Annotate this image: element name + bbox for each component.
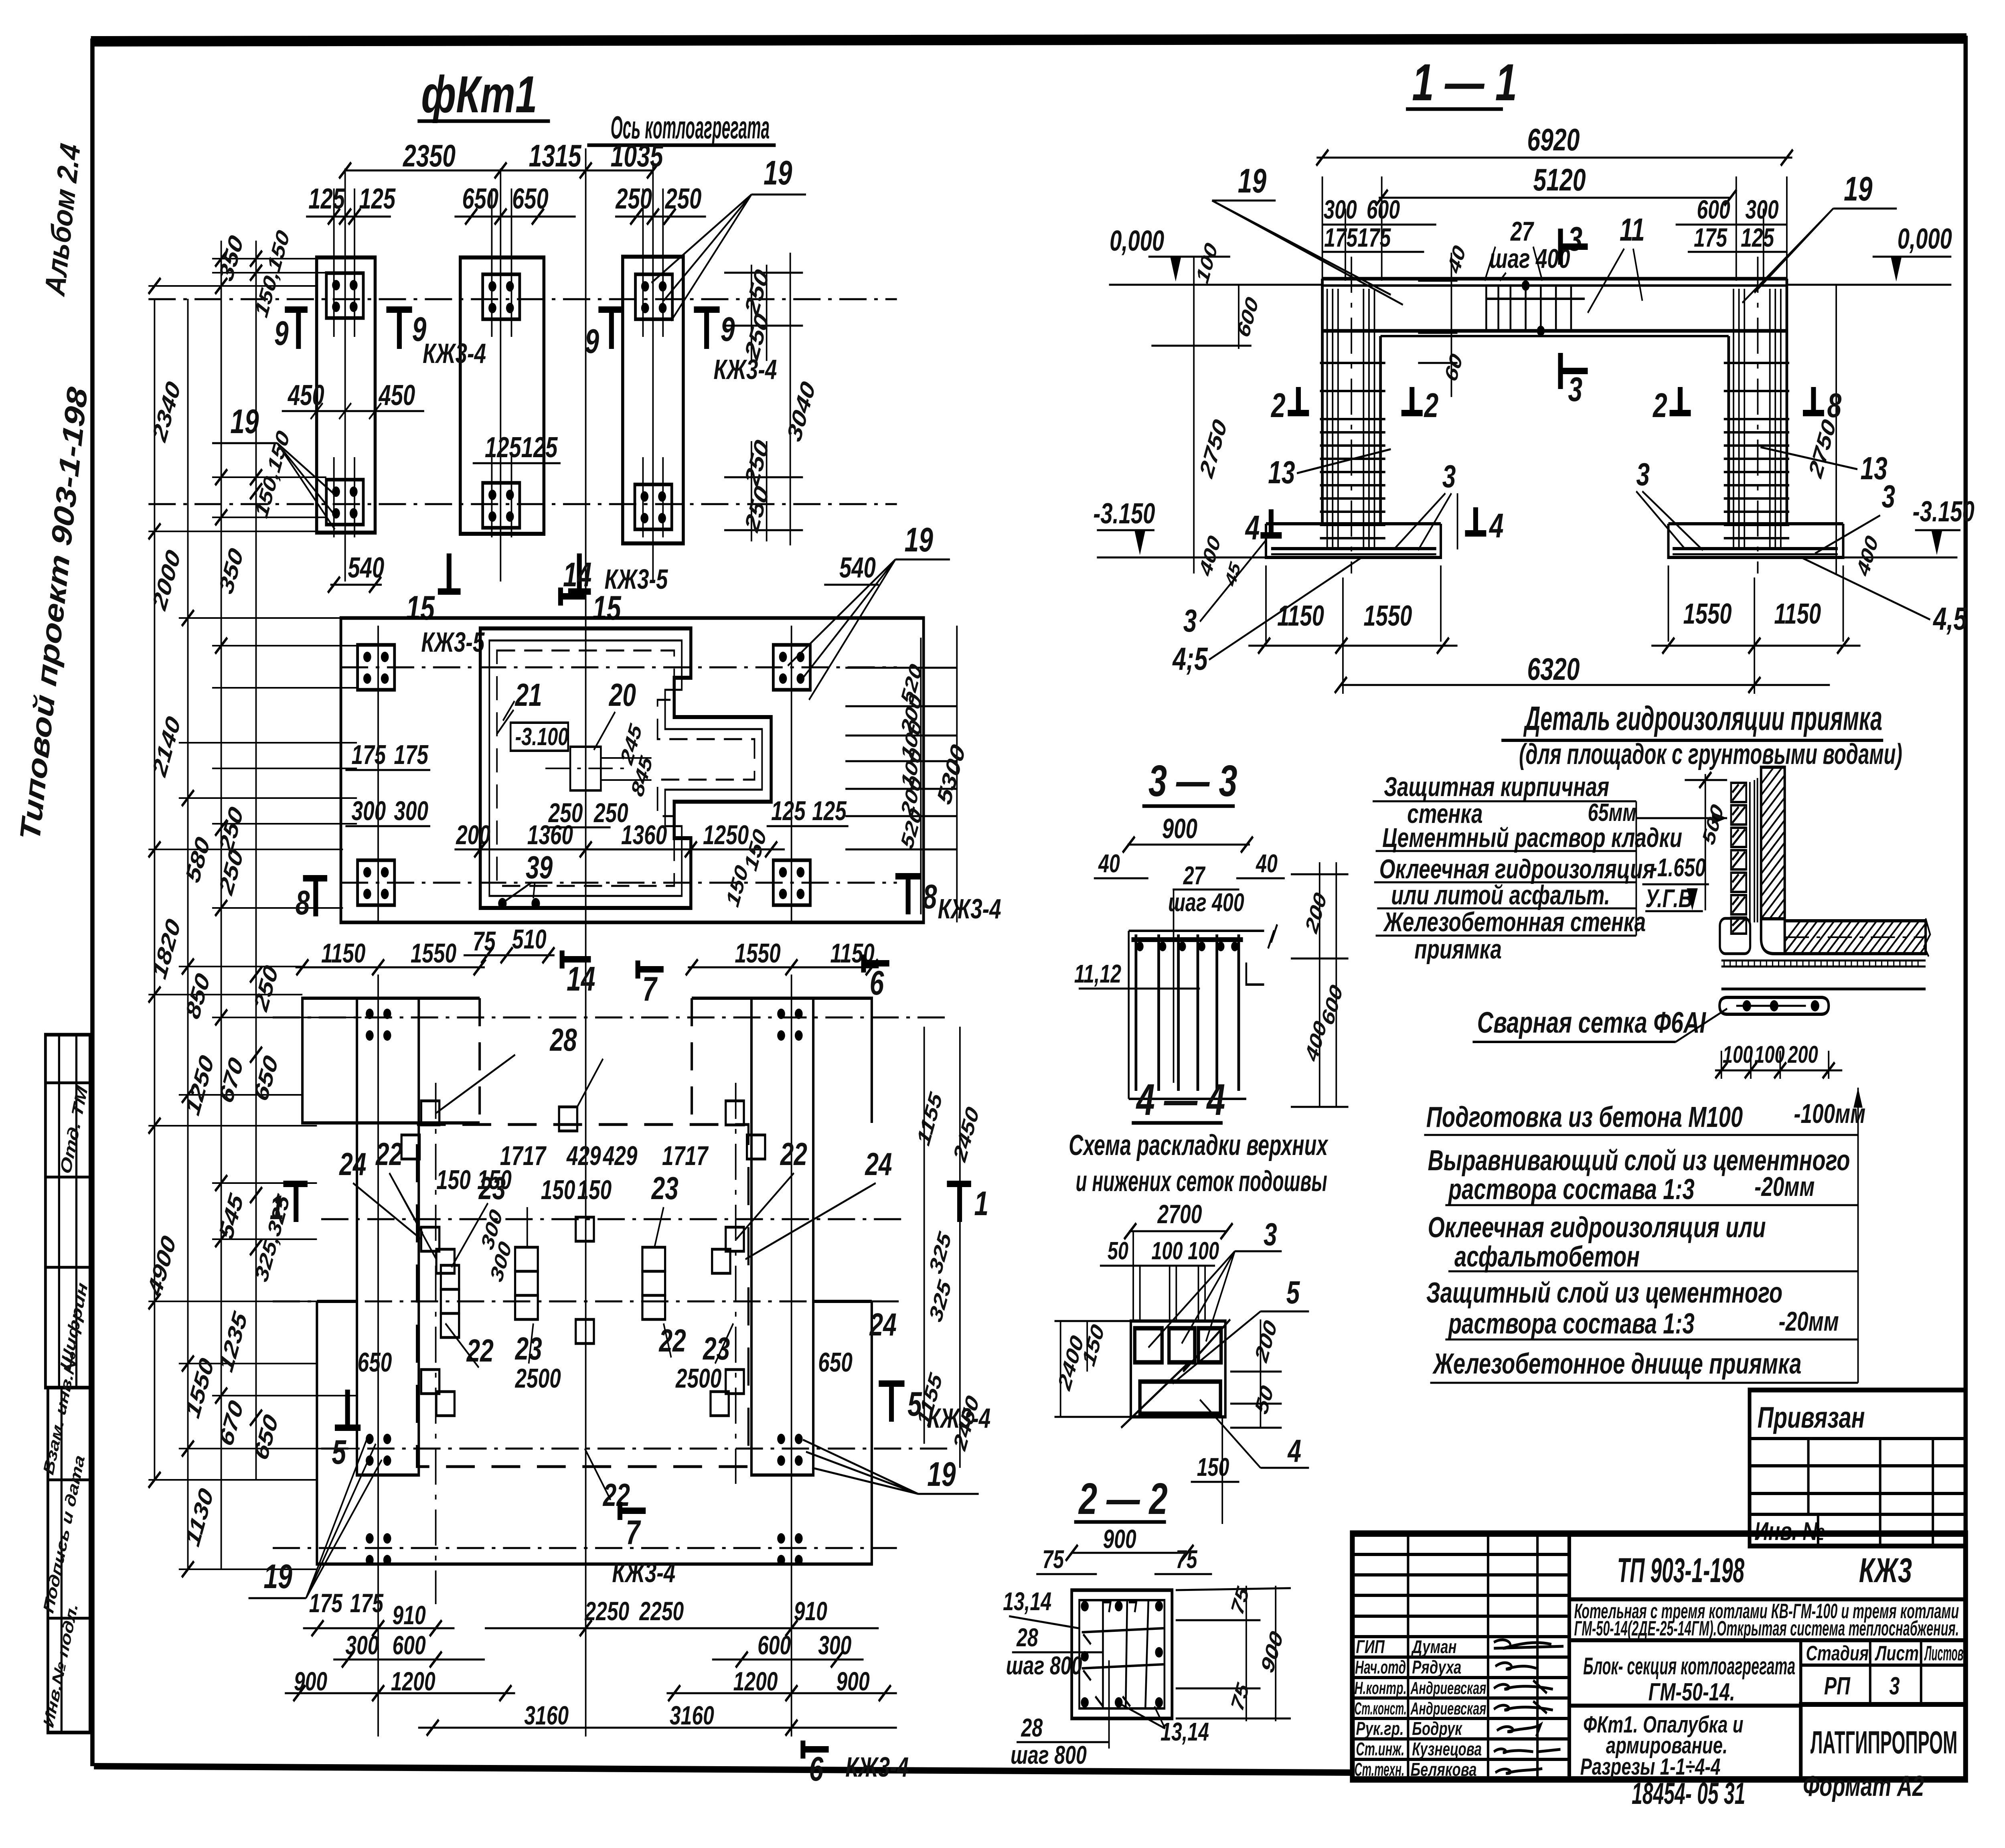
svg-text:У.Г.В: У.Г.В (1645, 885, 1693, 913)
footer handwritten (1632, 1770, 1924, 1811)
svg-text:1200: 1200 (733, 1667, 778, 1696)
membrane double lines (1749, 782, 1751, 922)
svg-text:18454- 05 31: 18454- 05 31 (1632, 1777, 1745, 1811)
svg-text:приямка: приямка (1414, 934, 1502, 965)
svg-text:шаг 800: шаг 800 (1011, 1741, 1087, 1770)
svg-text:1150: 1150 (321, 938, 365, 969)
column footing rect B (460, 257, 544, 534)
svg-text:40: 40 (1256, 850, 1278, 878)
svg-text:5: 5 (332, 1433, 346, 1471)
upper-right block rect (692, 998, 872, 1123)
5 mark left (335, 1424, 360, 1431)
svg-text:8: 8 (923, 877, 937, 916)
svg-text:шаг 400: шаг 400 (1168, 889, 1244, 917)
leader arrow to brick (1636, 817, 1727, 819)
450 450 dim under rect A (282, 403, 424, 419)
svg-text:100: 100 (1188, 1237, 1219, 1265)
svg-text:11,12: 11,12 (1074, 960, 1121, 989)
svg-text:Оклеечная гидроизоляция ил: Оклеечная гидроизоляция или (1428, 1211, 1766, 1244)
section mark 8 right + КЖ3-4 (895, 873, 921, 879)
lower materials text block (1426, 1098, 1865, 1380)
svg-text:650: 650 (512, 182, 549, 215)
section mark 14 + КЖ3-5 top (above band) (559, 950, 565, 969)
svg-text:ГМ-50-14(2ДЕ-25-14ГМ).Открытая: ГМ-50-14(2ДЕ-25-14ГМ).Открытая система т… (1574, 1617, 1959, 1640)
right column rebar cage (1734, 257, 1781, 573)
svg-text:429: 429 (566, 1140, 601, 1171)
svg-text:39: 39 (526, 850, 553, 885)
left signature table verticals (1408, 1534, 1569, 1779)
svg-text:1 — 1: 1 — 1 (1412, 54, 1517, 111)
svg-text:1150: 1150 (1277, 600, 1324, 632)
svg-text:125: 125 (359, 182, 396, 215)
square with rebar (1072, 1590, 1172, 1718)
svg-text:22: 22 (375, 1137, 403, 1172)
lower-left stamp tables (40, 1035, 91, 1732)
svg-text:2: 2 (1424, 386, 1439, 424)
svg-text:Разрезы 1-1÷4-4: Разрезы 1-1÷4-4 (1580, 1753, 1721, 1779)
svg-text:14: 14 (567, 960, 595, 998)
right dims (1250, 1317, 1281, 1418)
section marks 9 / 9 around rect A (274, 310, 486, 369)
membrane under slab (1721, 960, 1926, 962)
vertical centerlines (378, 975, 792, 1737)
svg-text:Цементный раствор кладки: Цементный раствор кладки (1382, 822, 1682, 853)
svg-text:Бодрук: Бодрук (1412, 1718, 1463, 1739)
dim rows below band (294, 1589, 870, 1730)
19 labels with leaders (1212, 201, 1897, 305)
upper-left block rect (302, 998, 480, 1123)
svg-text:4;5: 4;5 (1172, 641, 1208, 677)
section marks 15 / 15 around rect B bottom (406, 553, 622, 658)
svg-text:175: 175 (309, 1589, 343, 1618)
svg-text:150: 150 (541, 1174, 575, 1205)
svg-text:6320: 6320 (1527, 651, 1580, 687)
break mark (1268, 924, 1277, 948)
slab middle rebar ticks (1486, 285, 1585, 332)
svg-text:Андриевская: Андриевская (1410, 1699, 1487, 1719)
centerlines in band (341, 667, 897, 883)
svg-text:19: 19 (764, 154, 792, 192)
svg-text:4: 4 (1245, 509, 1260, 547)
svg-text:13,14: 13,14 (1003, 1588, 1051, 1616)
svg-text:300: 300 (352, 795, 386, 826)
svg-text:600: 600 (1697, 195, 1730, 224)
svg-text:510: 510 (512, 924, 547, 954)
svg-text:2500: 2500 (675, 1363, 721, 1394)
tick marks on chains (148, 251, 262, 1577)
svg-text:19: 19 (263, 1557, 292, 1595)
label 19 right with leaders down (788, 559, 950, 700)
svg-text:раствора состава 1:3: раствора состава 1:3 (1448, 1307, 1695, 1340)
19 label right of band (803, 1440, 978, 1494)
svg-text:шаг 400: шаг 400 (1489, 243, 1570, 274)
svg-text:300: 300 (1324, 195, 1357, 224)
svg-text:4: 4 (1287, 1433, 1301, 1469)
bottom band outer (317, 1301, 872, 1564)
svg-text:КЖ3-4: КЖ3-4 (423, 338, 486, 369)
svg-text:13: 13 (1268, 455, 1295, 490)
svg-text:Деталь гидроизоляции приямк: Деталь гидроизоляции приямка (1523, 699, 1882, 737)
svg-text:910: 910 (794, 1597, 827, 1626)
label 19 left with leaders to rect A lower bolts (212, 443, 335, 529)
sump square (570, 747, 601, 790)
svg-text:125: 125 (485, 431, 522, 464)
T5 КЖ3-4 section mark (879, 1380, 904, 1387)
svg-text:1200: 1200 (391, 1667, 435, 1696)
horizontal extension lines (148, 259, 361, 1569)
section mark 1 left + right (284, 1181, 308, 1187)
19 label bottom-left with long leaders (249, 1440, 382, 1598)
svg-text:и нижених сеток подошвы: и нижених сеток подошвы (1075, 1165, 1327, 1198)
right tall rect (751, 998, 813, 1475)
svg-text:Листов: Листов (1924, 1641, 1963, 1665)
svg-text:175: 175 (1357, 223, 1391, 252)
scattered pile squares (22/23/24) (401, 1101, 765, 1416)
svg-text:40: 40 (1098, 850, 1120, 878)
right dims (1291, 862, 1349, 1107)
svg-text:Андриевская: Андриевская (1410, 1679, 1487, 1698)
rotated dims right side of lower band (913, 1088, 983, 1454)
bottom thin slab (1721, 988, 1926, 991)
svg-text:1550: 1550 (735, 938, 780, 969)
svg-text:75: 75 (1042, 1546, 1064, 1574)
T7 КЖ3-4 lower left (617, 1502, 623, 1520)
svg-text:Ст.инж.: Ст.инж. (1356, 1739, 1404, 1759)
1150 1550 dims above band (321, 938, 875, 969)
svg-text:ГМ-50-14.: ГМ-50-14. (1649, 1678, 1735, 1706)
mesh plan (1131, 1321, 1225, 1417)
svg-text:8: 8 (1827, 386, 1841, 424)
svg-text:3160: 3160 (524, 1701, 569, 1730)
svg-text:900: 900 (1103, 1524, 1136, 1554)
svg-text:8: 8 (296, 883, 310, 922)
svg-text:600: 600 (1367, 195, 1400, 224)
svg-text:3: 3 (1568, 370, 1582, 408)
svg-text:450: 450 (287, 379, 324, 411)
svg-text:КЖ3-5: КЖ3-5 (604, 564, 668, 595)
bottom dims 1150 1550 / 6320 (1248, 565, 1860, 694)
svg-text:2350: 2350 (402, 138, 456, 173)
central dashed rectangle (417, 1125, 749, 1467)
svg-text:-20мм: -20мм (1754, 1171, 1815, 1202)
845/245 rotated near sump (617, 720, 657, 800)
svg-text:300: 300 (1745, 195, 1778, 224)
main drawing titles (421, 54, 1517, 146)
svg-text:Нач.отд: Нач.отд (1355, 1657, 1406, 1678)
svg-text:Защитный слой из цементн: Защитный слой из цементного (1426, 1277, 1782, 1309)
right dims (1176, 1586, 1291, 1721)
top dimension chains (1316, 158, 1792, 281)
section mark 8 left (303, 875, 327, 881)
svg-text:20: 20 (608, 677, 636, 713)
section mark 7 (635, 960, 641, 979)
band outer rectangle (341, 618, 924, 922)
svg-text:75: 75 (1176, 1546, 1198, 1574)
level arrows (1170, 257, 1181, 282)
labels 28 22 23 24 etc (339, 1022, 897, 1513)
svg-text:ЛАТГИПРОПРОМ: ЛАТГИПРОПРОМ (1811, 1725, 1957, 1761)
svg-text:ТП 903-1-198: ТП 903-1-198 (1617, 1551, 1745, 1590)
svg-text:2: 2 (1270, 386, 1286, 424)
portal outline (1322, 277, 1787, 281)
svg-text:150: 150 (577, 1174, 612, 1205)
100 100 200 dims (1723, 1042, 1818, 1068)
svg-text:-1.650: -1.650 (1651, 854, 1706, 882)
svg-text:Белякова: Белякова (1410, 1759, 1476, 1780)
signature squiggles (1494, 1640, 1563, 1773)
svg-text:50: 50 (1108, 1237, 1128, 1265)
svg-text:1717: 1717 (500, 1140, 547, 1171)
svg-text:3 — 3: 3 — 3 (1148, 756, 1237, 806)
svg-text:1550: 1550 (1363, 600, 1412, 632)
svg-text:КЖ3-4: КЖ3-4 (612, 1557, 675, 1589)
svg-text:7: 7 (642, 970, 658, 1008)
bolt groups left pair in band (358, 645, 395, 690)
svg-text:19: 19 (927, 1455, 956, 1493)
svg-text:3160: 3160 (670, 1701, 714, 1730)
dim row 200 1360 250-250 1360 1250 at y 2100 (456, 797, 749, 850)
svg-text:6: 6 (870, 964, 885, 1002)
svg-text:Защитная кирпичная: Защитная кирпичная (1384, 771, 1609, 802)
-3.150 datum (1097, 530, 1960, 557)
svg-text:3: 3 (1442, 459, 1456, 494)
6 mark upper (near pit bottom) (861, 954, 867, 973)
svg-text:3: 3 (1881, 479, 1895, 515)
right vertical dim chain 5300 etc (845, 626, 958, 922)
svg-text:Железобетонная стенка: Железобетонная стенка (1383, 906, 1646, 937)
pit outer wall (480, 628, 771, 908)
svg-text:15: 15 (406, 589, 435, 627)
svg-text:250: 250 (616, 182, 652, 215)
upper text block with leader lines (1379, 771, 1682, 965)
svg-text:200: 200 (1787, 1042, 1818, 1068)
svg-text:1360: 1360 (621, 819, 667, 850)
svg-text:Схема раскладки верхних: Схема раскладки верхних (1069, 1129, 1329, 1161)
svg-text:РП: РП (1824, 1672, 1851, 1700)
svg-text:Стадия: Стадия (1806, 1641, 1869, 1665)
27 шаг400 / 3 / 11 labels top (1489, 212, 1645, 274)
svg-text:21: 21 (514, 677, 542, 713)
svg-text:1035: 1035 (611, 138, 664, 173)
svg-text:КЖ3-5: КЖ3-5 (421, 627, 485, 658)
svg-text:24: 24 (865, 1147, 892, 1182)
svg-text:6920: 6920 (1527, 122, 1580, 157)
svg-text:650: 650 (818, 1347, 853, 1378)
svg-text:75: 75 (473, 926, 496, 956)
svg-text:Формат А2: Формат А2 (1803, 1770, 1924, 1802)
svg-text:23: 23 (651, 1171, 678, 1206)
svg-text:22: 22 (780, 1137, 807, 1172)
svg-text:125: 125 (308, 182, 345, 215)
svg-text:175: 175 (1324, 223, 1358, 252)
rotated dimension numbers (143, 227, 294, 1550)
svg-text:175: 175 (350, 1589, 384, 1618)
svg-text:Рядуха: Рядуха (1412, 1657, 1461, 1678)
svg-text:14: 14 (563, 555, 591, 594)
section marks 2/2/2/8 (1245, 386, 1841, 547)
svg-text:3: 3 (1264, 1217, 1277, 1252)
svg-text:28: 28 (1016, 1624, 1038, 1652)
svg-text:100: 100 (1151, 1237, 1183, 1265)
svg-text:250: 250 (548, 797, 583, 828)
svg-text:429: 429 (603, 1140, 638, 1171)
-3.100 label box (510, 723, 568, 751)
svg-text:КЖ3-4: КЖ3-4 (714, 354, 777, 385)
svg-text:9: 9 (274, 314, 289, 352)
svg-text:150: 150 (1197, 1453, 1229, 1482)
svg-text:Подготовка из бетона М100: Подготовка из бетона М100 (1426, 1101, 1743, 1133)
svg-text:23: 23 (478, 1171, 506, 1206)
svg-text:-3.150: -3.150 (1093, 497, 1155, 530)
svg-text:0,000: 0,000 (1898, 223, 1952, 255)
svg-text:фКт1: фКт1 (421, 66, 537, 124)
svg-text:1: 1 (270, 1188, 284, 1226)
left footing (1266, 522, 1441, 525)
svg-text:125: 125 (1741, 223, 1774, 252)
svg-text:11: 11 (1620, 212, 1645, 248)
dims inside band: 175 175 / 300 300 left (352, 739, 847, 826)
svg-text:22: 22 (466, 1333, 494, 1369)
section marks 9 / 9 around rect C (585, 310, 777, 385)
rotated dims 150/150 near right bolt (722, 825, 771, 910)
svg-text:5120: 5120 (1533, 162, 1586, 197)
svg-text:27: 27 (1510, 216, 1534, 247)
svg-text:900: 900 (1162, 813, 1197, 845)
left tall rect (357, 998, 419, 1475)
svg-text:6: 6 (809, 1750, 824, 1788)
svg-text:19: 19 (230, 402, 259, 440)
svg-text:24: 24 (869, 1307, 897, 1343)
svg-text:650: 650 (462, 182, 498, 215)
rotated small dims (1193, 239, 1883, 590)
svg-text:19: 19 (905, 521, 934, 559)
svg-text:1150: 1150 (1774, 598, 1821, 630)
svg-text:-3.150: -3.150 (1913, 495, 1975, 528)
svg-text:Н.контр.: Н.контр. (1355, 1679, 1407, 1698)
svg-text:шаг 800: шаг 800 (1006, 1652, 1082, 1680)
svg-text:24: 24 (339, 1147, 367, 1182)
svg-text:(для площадок с грунтовыми: (для площадок с грунтовыми водами) (1519, 738, 1902, 770)
svg-text:КЖ3-4: КЖ3-4 (938, 894, 1001, 925)
svg-text:600: 600 (393, 1631, 426, 1660)
welded mesh bar detail (1719, 997, 1829, 1014)
svg-text:2700: 2700 (1157, 1200, 1202, 1229)
svg-text:раствора состава 1:3: раствора состава 1:3 (1448, 1173, 1695, 1206)
svg-text:1717: 1717 (662, 1140, 709, 1171)
svg-text:асфальтобетон: асфальтобетон (1454, 1240, 1640, 1273)
svg-text:Кузнецова: Кузнецова (1412, 1739, 1482, 1759)
svg-text:9: 9 (721, 310, 735, 348)
svg-text:-20мм: -20мм (1779, 1306, 1839, 1337)
corner prep block (1720, 918, 1750, 954)
svg-text:5: 5 (1286, 1275, 1300, 1311)
svg-text:3: 3 (1183, 603, 1197, 639)
svg-text:4,5: 4,5 (1932, 601, 1967, 637)
svg-text:125: 125 (812, 795, 847, 826)
left table rows (1352, 1554, 1569, 1759)
svg-text:2500: 2500 (515, 1363, 561, 1394)
label 19 with leaders to bolt group C (652, 195, 806, 321)
left margin rotated sheet labels (14, 141, 93, 843)
datum lines 0.000 (1109, 257, 1952, 285)
svg-text:Ст.конст.: Ст.конст. (1355, 1699, 1407, 1719)
left dims (1053, 1321, 1108, 1394)
svg-text:КЖ3-4: КЖ3-4 (845, 1752, 909, 1783)
svg-text:22: 22 (658, 1323, 686, 1359)
svg-text:28: 28 (549, 1022, 577, 1058)
svg-text:9: 9 (585, 322, 599, 360)
svg-text:19: 19 (1844, 170, 1873, 208)
svg-text:Блок- секция котлоагрегата: Блок- секция котлоагрегата (1583, 1653, 1795, 1680)
floor slab hatched (1776, 921, 1979, 954)
svg-text:1315: 1315 (529, 138, 582, 173)
column footing rect C (623, 257, 683, 543)
column footing rect A (317, 257, 375, 533)
pit inner wall lines (489, 640, 762, 896)
right vertical dim chain of top plan (724, 253, 803, 545)
svg-text:Сварная сетка Ф6АI: Сварная сетка Ф6АI (1477, 1006, 1707, 1039)
svg-text:или литой асфальт.: или литой асфальт. (1391, 879, 1610, 910)
svg-text:Ст.техн.: Ст.техн. (1355, 1759, 1405, 1780)
svg-text:540: 540 (839, 551, 876, 584)
vertical centerlines of footings (334, 160, 663, 582)
wall vertical hatched (1659, 767, 1986, 919)
brick stack (1731, 783, 1746, 934)
svg-text:3: 3 (1636, 457, 1650, 492)
right footing (1668, 522, 1843, 525)
svg-text:125: 125 (521, 431, 558, 464)
svg-text:2: 2 (1652, 386, 1667, 424)
svg-text:1550: 1550 (411, 938, 456, 969)
svg-text:-3.100: -3.100 (515, 723, 569, 751)
svg-text:4 — 4: 4 — 4 (1136, 1075, 1225, 1125)
ЛАТГИПРОПРОМ box (1801, 1704, 1966, 1779)
svg-text:900: 900 (836, 1667, 870, 1696)
svg-text:7: 7 (626, 1513, 641, 1551)
svg-text:3: 3 (1568, 220, 1582, 258)
chain vertical lines (154, 299, 156, 1480)
svg-text:450: 450 (378, 379, 415, 411)
horizontal centerlines (273, 1017, 948, 1548)
svg-text:0,000: 0,000 (1110, 225, 1164, 257)
horizontal centerlines through bolt rows (148, 299, 897, 504)
svg-text:300: 300 (394, 795, 428, 826)
svg-text:250: 250 (665, 182, 702, 215)
left column rebar cage (1327, 257, 1375, 573)
svg-text:910: 910 (393, 1601, 426, 1630)
svg-text:150: 150 (436, 1164, 471, 1195)
svg-text:Думан: Думан (1411, 1636, 1457, 1657)
svg-text:Железобетонное днище приям: Железобетонное днище приямка (1432, 1347, 1802, 1380)
signature rows text (1355, 1636, 1487, 1780)
break zigzag right of slab (1924, 918, 1930, 956)
svg-text:КЖ3: КЖ3 (1859, 1551, 1912, 1590)
svg-text:200: 200 (456, 819, 490, 850)
svg-text:2 — 2: 2 — 2 (1078, 1474, 1167, 1524)
svg-text:27: 27 (1183, 862, 1206, 890)
6 mark bottom (800, 1741, 806, 1759)
svg-text:4: 4 (1489, 507, 1503, 545)
svg-text:28: 28 (1021, 1714, 1043, 1743)
svg-text:175: 175 (394, 739, 429, 770)
svg-text:13,14: 13,14 (1160, 1718, 1209, 1747)
svg-text:ГИП: ГИП (1356, 1636, 1385, 1657)
svg-text:Рук.гр.: Рук.гр. (1356, 1718, 1403, 1739)
svg-text:125: 125 (771, 795, 806, 826)
svg-text:Привязан: Привязан (1758, 1401, 1865, 1434)
svg-text:19: 19 (1238, 162, 1267, 200)
svg-text:1550: 1550 (1683, 598, 1732, 630)
